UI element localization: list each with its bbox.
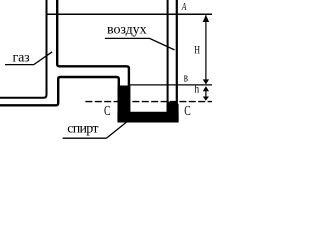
node C dashed level line bbox=[85, 101, 212, 103]
wire: газ pointer bbox=[33, 52, 52, 65]
wire: left gas tube inner wall, elbow to U-tube left branch right wall bbox=[57, 0, 129, 118]
wire: air tube left wall bbox=[167, 0, 169, 104]
wire: alcohol fill left branch of U-tube bbox=[118, 86, 131, 123]
wire: alcohol fill bottom bar of U-tube bbox=[117, 112, 178, 123]
dimension H arrow bbox=[203, 15, 209, 85]
node B level line bbox=[130, 84, 212, 86]
wire: connecting tube bottom wall, elbow down-left to bottom-left tube bottom wall bbox=[0, 77, 119, 118]
svg-text:C: C bbox=[184, 104, 191, 119]
svg-text:H: H bbox=[194, 42, 200, 56]
dimension h arrow bbox=[203, 86, 209, 101]
wire: спирт underline bbox=[63, 137, 107, 139]
wire: air tube right wall bbox=[176, 0, 178, 104]
wire: газ underline bbox=[5, 64, 33, 66]
svg-text:спирт: спирт bbox=[67, 121, 98, 136]
svg-text:h: h bbox=[194, 82, 199, 96]
svg-text:газ: газ bbox=[13, 50, 31, 65]
wire: top vessel line (level A) bbox=[47, 13, 213, 15]
wire: спирт pointer bbox=[106, 122, 127, 139]
wire: alcohol fill right branch merged bbox=[167, 104, 179, 123]
svg-text:C: C bbox=[104, 104, 111, 119]
wire: left gas tube outer wall + bottom-left tube top wall bbox=[0, 0, 47, 98]
wire: воздух underline and pointer bbox=[105, 38, 175, 50]
wire: alcohol fill inside air tube bbox=[168, 102, 176, 107]
svg-text:в: в bbox=[184, 70, 188, 85]
svg-text:A: A bbox=[181, 2, 187, 13]
svg-text:воздух: воздух bbox=[107, 23, 147, 38]
